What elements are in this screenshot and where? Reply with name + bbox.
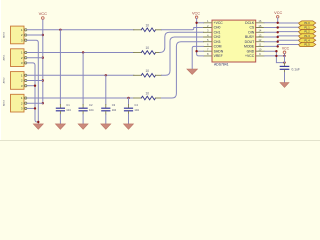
capacitor C4 [125,98,140,124]
junction VCC pin9 [283,55,285,57]
wire ADC2 pin3 join [27,85,35,87]
svg-text:CH3: CH3 [214,40,221,44]
ground symbol under C4 [124,124,134,129]
chip left pin names [214,21,224,58]
svg-text:CH1: CH1 [214,31,221,35]
junction CS [277,26,279,28]
svg-text:10: 10 [146,23,150,27]
svg-text:104: 104 [89,108,94,112]
capacitor C5 0.1uF [280,56,300,82]
junction gnd bus merge [37,121,39,123]
ground symbol under C3 [101,124,111,129]
svg-text:ADC0: ADC0 [3,31,6,38]
svg-text:ADC2: ADC2 [3,77,6,84]
svg-text:CH2: CH2 [214,35,221,39]
svg-text:16: 16 [258,19,261,23]
junction DOUT [277,41,279,43]
svg-text:CH0: CH0 [214,26,221,30]
svg-text:BUSY: BUSY [245,35,255,39]
svg-text:10: 10 [146,92,150,96]
junction MODE [277,45,279,47]
svg-text:VCC: VCC [192,12,200,16]
wire ADC0 pin2 to VCC rail [27,34,43,36]
junction S2 cap C3 [105,74,107,76]
wire signal S0 (ADC0 pin1) [27,29,134,31]
svg-text:11: 11 [259,43,262,47]
power VCC symbol right bottom [282,46,290,53]
power VCC symbol right top [274,11,282,18]
svg-text:10: 10 [258,48,261,52]
svg-text:DOUT: DOUT [245,40,255,44]
capacitor C3 [102,75,117,123]
svg-text:P1.0: P1.0 [304,21,310,25]
junction GND jog / cap node [283,61,285,63]
wire ADC0 pin3 to ground [27,40,39,123]
junction VCC/ADC0 pin2 [42,34,44,36]
chip left pin numbers [207,19,209,56]
svg-text:VCC: VCC [274,11,282,15]
ground symbol under C1 [55,124,65,129]
svg-text:14: 14 [258,29,261,33]
svg-text:VCC: VCC [39,11,48,16]
junction VCC/ADC1 pin2 [42,57,44,59]
wire signal S3 (ADC3 pin1) [27,97,134,99]
svg-text:104: 104 [134,108,139,112]
wire VCC right to DCLK row [277,18,279,23]
svg-text:P1.5: P1.5 [304,43,310,47]
svg-text:SHDN: SHDN [214,49,224,53]
svg-text:C4: C4 [134,103,138,107]
connector JP ADC1 [3,49,27,67]
svg-text:DCLK: DCLK [245,21,255,25]
connector JP ADC0 [3,26,27,44]
chip right pin numbers [258,19,261,56]
wire S0 to chip CH0 [162,28,204,30]
port DOUT [299,38,316,42]
wire VCC down to pin1 / SHDN / VREF [197,18,204,56]
svg-text:DIN: DIN [248,31,254,35]
svg-text:VCC: VCC [282,46,290,50]
op chip U1 ADS7841 [212,20,256,66]
junction pin9 crossing [275,55,277,57]
wire SHDN to VCC rail [197,50,204,52]
wire BUSY to port [264,36,298,37]
resistor R4 10 [134,92,162,100]
ground symbol under chip [187,69,198,75]
connector JP ADC2 [3,72,27,90]
ground symbol right [280,83,289,88]
wire ADC1 pin2 to VCC rail [27,57,43,59]
junction GND [275,50,277,52]
wire ADC2 pin2 to VCC rail [27,80,43,82]
port DIN [299,30,316,34]
svg-text:104: 104 [66,108,71,112]
chip right pin stubs 16-9 [256,23,265,56]
wire MODE to port [264,45,298,47]
ground symbol under C2 [78,124,88,129]
svg-text:C3: C3 [112,103,116,107]
capacitor C1 [56,30,71,124]
svg-text:ADS7841: ADS7841 [214,62,229,66]
wire DOUT to port [264,40,298,42]
junction gnd bus ADC3 pin3 [34,107,36,109]
svg-text:C1: C1 [66,103,70,107]
wire DIN to port [264,31,298,34]
resistor R2 10 [134,46,160,54]
wire VCC stem to pin9 node [284,54,286,56]
wire ADC3 pin2 to VCC rail [27,102,43,104]
svg-text:10: 10 [146,46,150,50]
wire S3 to chip CH3 [162,42,204,98]
wire CS to port [264,26,298,28]
junction VCC pin1 [195,22,197,24]
sheet left edge highlight [0,0,1,141]
junction DCLK [277,22,279,24]
port DCLK [299,21,316,25]
wire ADC3 pin3 join [27,107,35,109]
junction VCC/ADC3 pin2 [42,102,44,104]
svg-text:ADC1: ADC1 [3,54,6,61]
svg-text:P1.4: P1.4 [304,38,310,42]
svg-text:COM: COM [214,45,222,49]
wire DCLK to port [264,22,298,24]
connector JP ADC3 [3,94,27,112]
junction BUSY [277,36,279,38]
wire GND pin10 jog [264,51,284,62]
wire VCC vertical rail [42,20,44,103]
chip left pin stubs 1-8 [204,23,213,56]
svg-text:15: 15 [258,24,261,28]
port CS [299,25,316,29]
wire signal S2 (ADC2 pin1) [27,74,134,76]
capacitor C2 [79,53,94,124]
junction S3 cap C4 [127,97,129,99]
svg-text:ADC3: ADC3 [3,99,6,106]
wire S1 to chip CH1 [160,32,204,52]
port MODE [299,42,316,46]
power VCC symbol left [39,11,48,19]
svg-text:+VCC: +VCC [214,21,224,25]
wire ADC1 pin3 down bus [27,63,39,122]
svg-text:P1.2: P1.2 [304,30,310,34]
svg-text:12: 12 [258,38,261,42]
junction S0 cap C1 [59,29,61,31]
svg-text:104: 104 [112,108,117,112]
wire COM to ground [192,46,203,69]
power VCC symbol above chip pin1 [192,12,200,19]
sheet background [0,0,320,141]
junction DIN [277,31,279,33]
wire S2 to chip CH2 [162,37,204,75]
svg-text:10: 10 [146,69,150,73]
wire +VCC pin9 [264,55,284,57]
junction gnd bus ADC2 pin3 [34,85,36,87]
ground symbol left [33,124,43,129]
resistor R1 10 [134,23,162,31]
junction SHDN [195,50,197,52]
port BUSY [299,34,316,38]
svg-text:13: 13 [258,33,261,37]
junction VCC/ADC2 pin2 [42,79,44,81]
svg-text:P1.3: P1.3 [304,34,310,38]
junction S1 cap C2 [82,51,84,53]
wire VCC to chip pin1 [197,22,204,24]
svg-text:C2: C2 [89,103,93,107]
svg-text:P1.1: P1.1 [304,25,310,29]
svg-text:GND: GND [247,49,255,53]
resistor R3 10 [134,69,162,77]
svg-text:MODE: MODE [244,45,255,49]
svg-text:0.1uF: 0.1uF [292,67,300,71]
sheet bottom border [0,140,320,141]
wire signal S1 (ADC1 pin1) [27,52,134,54]
svg-text:VREF: VREF [214,54,223,58]
svg-text:+VCC: +VCC [245,54,255,58]
chip right pin names [244,21,255,58]
svg-text:CS: CS [249,26,254,30]
